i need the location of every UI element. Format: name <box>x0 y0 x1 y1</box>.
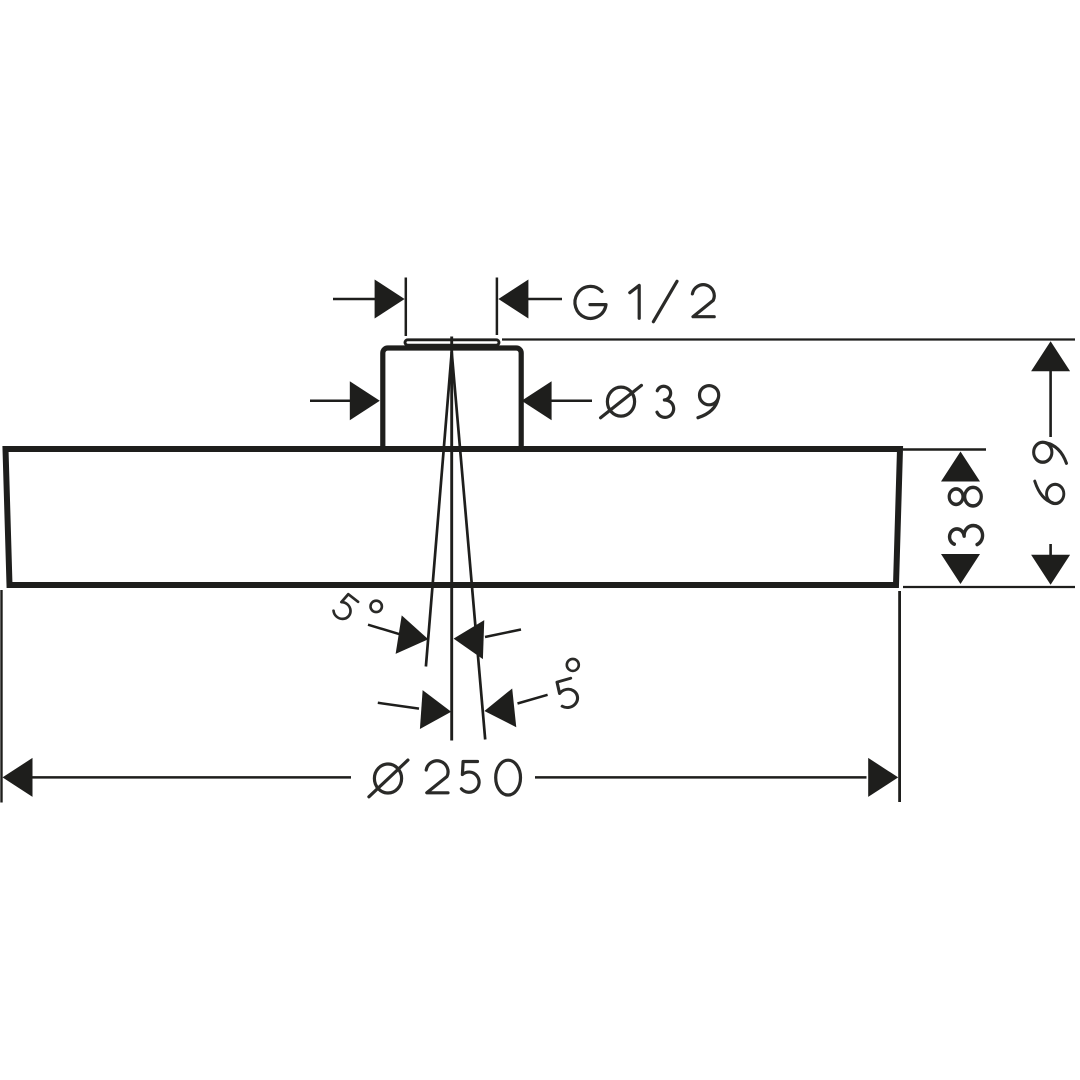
G1/2 label glyph 1 <box>630 285 639 318</box>
5deg lower label 5 <box>555 678 579 709</box>
D250 dimension line left segment <box>32 776 351 779</box>
D39 arrow left <box>350 381 380 420</box>
D39 label glyph diameter <box>601 385 642 417</box>
G1/2 extension line right <box>496 278 499 336</box>
G1/2 label glyph slash <box>653 281 677 321</box>
38 arrow up <box>941 452 980 482</box>
38 extension line top <box>903 448 986 451</box>
5deg lower arrow toward right spray line <box>482 688 516 730</box>
left spray line 5deg <box>426 352 452 667</box>
5deg upper label 5 <box>332 593 359 622</box>
69 extension line bottom <box>903 586 1075 588</box>
shower plate body <box>6 449 901 585</box>
D39 dimension tail right <box>551 400 592 403</box>
G1/2 extension line left <box>405 278 408 337</box>
G1/2 dimension tail right <box>527 298 562 301</box>
G1/2 label glyph 2 <box>692 285 714 317</box>
5deg lower leader line <box>378 703 419 709</box>
D250 label glyph 5 <box>461 762 479 793</box>
5deg upper tail right <box>485 630 521 638</box>
D250 extension line left <box>0 590 2 803</box>
38 label glyph 8 rotated <box>949 487 981 506</box>
G1/2 label glyph G <box>575 286 606 318</box>
D250 label glyph 2 <box>426 761 448 793</box>
69 label glyph 9 rotated <box>1034 442 1067 463</box>
5deg upper degree ring <box>371 601 382 612</box>
spray centerline <box>450 337 453 741</box>
G1/2 arrow left <box>375 280 405 319</box>
69 arrow up <box>1031 341 1070 371</box>
G1/2 dimension tail left <box>333 298 376 301</box>
5deg upper arrow toward left spray line <box>396 615 432 658</box>
69 label glyph 6 rotated <box>1035 481 1064 503</box>
D250 extension line right <box>898 591 901 802</box>
69 arrow down <box>1031 555 1070 585</box>
D39 label glyph 9 <box>698 386 719 418</box>
D250 label glyph 0 <box>496 760 521 795</box>
5deg lower arrow toward centerline <box>420 690 453 731</box>
G1/2 arrow right <box>498 280 528 319</box>
38 label glyph 3 rotated <box>950 526 983 545</box>
D250 arrow right <box>868 758 898 797</box>
D250 arrow left <box>3 758 33 797</box>
connector stem (G1/2 thread body) <box>383 348 521 452</box>
right spray line 5deg <box>452 352 486 740</box>
5deg upper arrow toward centerline <box>453 619 484 659</box>
38 arrow down <box>941 554 980 584</box>
69 dimension line lower segment <box>1049 544 1052 556</box>
5deg upper leader line <box>368 625 400 635</box>
D39 arrow right <box>522 381 552 420</box>
D250 label glyph diameter <box>369 760 408 797</box>
5deg lower degree ring <box>567 659 579 671</box>
69 extension line top <box>502 338 1075 340</box>
D39 dimension tail left <box>310 400 352 403</box>
69 dimension line upper segment <box>1049 369 1052 437</box>
D250 dimension line right segment <box>535 776 867 779</box>
D39 label glyph 3 <box>657 386 674 417</box>
5deg lower tail right <box>518 695 548 704</box>
lip (flange) on top of connector stem <box>405 340 499 345</box>
